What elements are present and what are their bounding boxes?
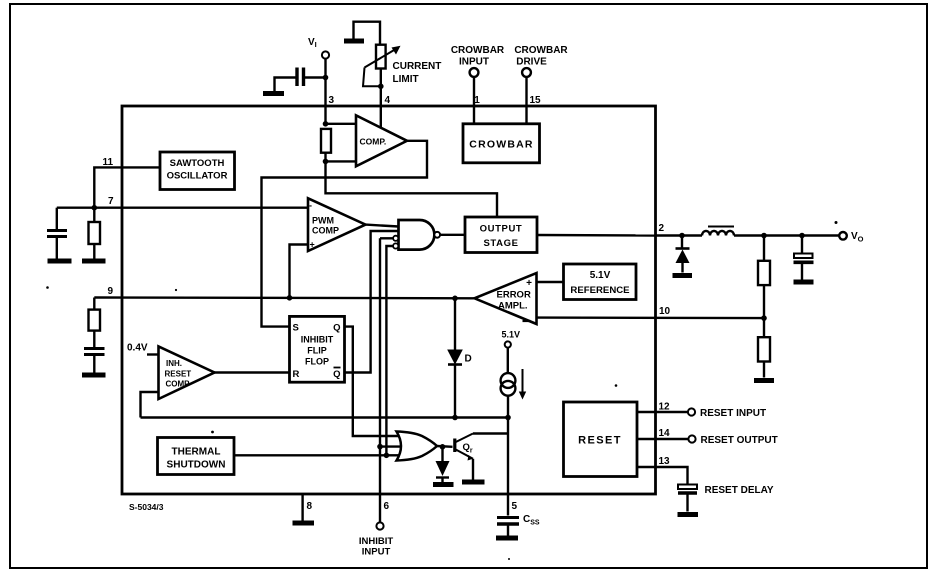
svg-text:CROWBAR: CROWBAR (451, 45, 505, 56)
current source (soft start) (501, 369, 527, 400)
svg-text:DRIVE: DRIVE (516, 57, 547, 68)
wire output stage to pin 2 (537, 234, 656, 237)
block RESET (564, 402, 638, 477)
svg-text:-: - (309, 201, 312, 211)
resistor oscillator R (89, 208, 101, 259)
svg-text:COMP.: COMP. (360, 137, 387, 147)
wire 5.1V to current source (507, 348, 509, 373)
wire pin 8 to ground (301, 494, 303, 521)
svg-text:RESET: RESET (578, 435, 622, 447)
wire flip-flop Q to OR gate (345, 327, 403, 436)
wire OR in3 (386, 454, 401, 456)
op-amp INH RESET COMP (159, 346, 215, 399)
capacitor output electrolytic (794, 236, 814, 280)
wire pin 7 (57, 206, 308, 208)
wire current source to pin 5 (507, 396, 509, 516)
node junction Vi/cap (323, 75, 329, 81)
capacitor oscillator C (47, 208, 67, 259)
ground (Qr emitter) (462, 480, 485, 485)
capacitor input bypass (297, 68, 304, 87)
op-amp ERROR AMPL (475, 273, 537, 324)
wire pin 13 (637, 467, 688, 484)
op-amp COMP (current limit comparator) (356, 115, 407, 166)
wire inhibit vertical pin 6 (379, 238, 381, 522)
capacitor RESET DELAY (678, 485, 774, 512)
svg-text:COMP: COMP (166, 380, 191, 389)
resistor sense (pin3) (321, 129, 331, 153)
op-amp PWM COMP (308, 198, 366, 251)
svg-text:+: + (526, 278, 532, 289)
wire NAND output to output stage (440, 234, 465, 236)
svg-text:5: 5 (512, 501, 518, 512)
node junction pin3 top (323, 121, 329, 127)
inductor L (702, 227, 734, 236)
wire to diode D (454, 298, 456, 350)
svg-text:3: 3 (329, 95, 335, 106)
svg-text:AMPL.: AMPL. (498, 301, 528, 312)
svg-text:D: D (465, 354, 472, 365)
svg-text:RESET: RESET (165, 370, 192, 379)
svg-text:0.4V: 0.4V (127, 343, 148, 354)
wire INH comp output to flip-flop R (215, 371, 290, 373)
wire pin 10 (feedback) (537, 316, 765, 319)
diode (OR output clamp) (436, 447, 450, 482)
wire pin 1 (473, 77, 475, 124)
wire OR in2 (380, 445, 404, 447)
svg-text:OUTPUT: OUTPUT (480, 224, 523, 235)
wire PWM plus input to pin9 line (290, 245, 309, 298)
wire NAND in4 (thermal line) (386, 246, 393, 455)
svg-text:CURRENT: CURRENT (393, 61, 442, 72)
node junction pot/wiper (378, 84, 384, 90)
capacitor Css (497, 514, 540, 536)
potentiometer CURRENT LIMIT (363, 45, 401, 87)
block OUTPUT STAGE (465, 217, 537, 253)
svg-text:7: 7 (108, 196, 114, 207)
svg-text:LIMIT: LIMIT (393, 74, 419, 85)
resistor divider lower (758, 318, 770, 377)
wire inductor to Vo (734, 234, 839, 236)
wire pin 12 (637, 411, 688, 413)
node Vo terminal (839, 231, 863, 244)
svg-text:9: 9 (108, 286, 114, 297)
ground (osc C) (48, 259, 72, 264)
ground (freewheel diode) (673, 273, 693, 278)
block 5.1V REFERENCE (564, 264, 637, 300)
wire pin 11 (94, 167, 160, 207)
svg-text:15: 15 (530, 95, 542, 106)
node 5.1V source terminal (502, 330, 521, 348)
svg-text:INPUT: INPUT (459, 57, 489, 68)
node junction pin9 line / diode D (452, 296, 458, 302)
wire diode D to soft-start line (454, 365, 456, 418)
node RESET OUTPUT terminal (688, 435, 777, 446)
svg-text:THERMAL: THERMAL (172, 447, 221, 458)
node RESET INPUT terminal (688, 408, 766, 419)
node junction divider top (761, 233, 767, 239)
svg-text:8: 8 (307, 501, 313, 512)
wire resistor bottom to output stage top (326, 153, 498, 217)
ground (reset delay) (678, 512, 699, 517)
svg-text:OSCILLATOR: OSCILLATOR (167, 171, 228, 182)
svg-text:RESET DELAY: RESET DELAY (705, 485, 774, 496)
svg-text:STAGE: STAGE (483, 238, 518, 249)
svg-text:FLOP: FLOP (305, 357, 329, 367)
wire PWM output to NAND in1 (366, 225, 399, 227)
wire NAND in3 (inhibit line) (380, 237, 393, 239)
svg-text:INH.: INH. (166, 359, 182, 368)
svg-text:6: 6 (384, 501, 390, 512)
svg-text:SHUTDOWN: SHUTDOWN (167, 460, 226, 471)
node CROWBAR DRIVE terminal (514, 45, 568, 77)
node junction output cap (799, 233, 805, 239)
gate OR (reset drive) (397, 432, 438, 461)
node junction OR output (440, 444, 446, 450)
ground (output cap) (794, 280, 814, 285)
wire comp minus input (326, 123, 357, 125)
wire Qr emitter to ground (472, 459, 474, 480)
wire OR output (437, 445, 453, 448)
svg-text:RESET OUTPUT: RESET OUTPUT (701, 435, 778, 446)
capacitor (pin9) (84, 349, 105, 373)
node junction pin7/pin11 (92, 205, 98, 211)
wire error amp plus to reference (537, 281, 564, 283)
svg-text:S-5034/3: S-5034/3 (129, 502, 164, 512)
node INHIBIT INPUT terminal (359, 522, 394, 557)
svg-text:SAWTOOTH: SAWTOOTH (170, 158, 225, 169)
wire ground to pot top (354, 22, 381, 45)
ground (input cap) (263, 91, 284, 96)
wire INH comp feedback (141, 392, 159, 418)
ground (above pot) (344, 39, 364, 44)
wire comp plus input (326, 160, 357, 162)
wire pot to pin 4 (380, 69, 382, 139)
ground (pin 8) (293, 521, 315, 526)
wire pin 15 (525, 77, 527, 124)
svg-text:13: 13 (659, 456, 671, 467)
svg-text:COMP: COMP (312, 226, 339, 236)
ground (clamp diode) (433, 482, 454, 487)
wire cap to Vi node (305, 76, 326, 78)
svg-text:1: 1 (474, 95, 480, 106)
wire soft-start horizontal line (141, 416, 509, 418)
scan specks (46, 221, 837, 560)
wire pin 2 external line (656, 234, 702, 236)
IC outline box (122, 106, 656, 494)
gate NAND (393, 220, 440, 250)
node junction soft-start line / D (452, 415, 458, 421)
ground (pin9 RC) (82, 373, 106, 378)
wire pin 14 (637, 438, 689, 440)
svg-text:ERROR: ERROR (497, 290, 531, 301)
svg-text:R: R (293, 369, 300, 380)
wire Qr collector (473, 432, 508, 434)
wire NAND in2 from flip-flop Qbar (345, 231, 399, 373)
block THERMAL SHUTDOWN (158, 438, 235, 475)
node junction inhibit / OR in2 (377, 444, 383, 450)
wire cap to ground (275, 78, 296, 93)
svg-text:5.1V: 5.1V (590, 270, 611, 281)
wire 0.4V input (147, 353, 159, 355)
svg-text:INHIBIT: INHIBIT (301, 335, 334, 345)
svg-text:REFERENCE: REFERENCE (570, 285, 630, 296)
node junction PWM+/pin9 (287, 295, 293, 301)
svg-text:14: 14 (659, 428, 671, 439)
block SAWTOOTH OSCILLATOR (160, 152, 235, 190)
svg-text:Q: Q (333, 369, 340, 380)
svg-text:4: 4 (385, 95, 391, 106)
svg-text:FLIP: FLIP (307, 346, 327, 356)
node junction soft-start (505, 415, 511, 421)
resistor divider upper (758, 236, 770, 319)
svg-text:INHIBIT: INHIBIT (359, 536, 394, 547)
svg-text:Q: Q (333, 323, 340, 334)
svg-text:10: 10 (659, 306, 671, 317)
wire COMP output to flip-flop S (262, 141, 428, 327)
svg-text:PWM: PWM (312, 216, 334, 226)
block INHIBIT FLIP FLOP (290, 316, 345, 382)
node junction divider mid (pin 10) (761, 315, 767, 321)
svg-text:+: + (310, 240, 315, 250)
wire Vi to pin 3 (324, 59, 326, 124)
svg-text:5.1V: 5.1V (502, 330, 521, 340)
diode freewheel (676, 236, 690, 273)
svg-text:2: 2 (659, 223, 665, 234)
svg-text:S: S (293, 323, 299, 334)
ground (Css) (496, 536, 518, 541)
ground (divider) (754, 378, 774, 383)
block CROWBAR (463, 124, 540, 163)
node junction pin3 bottom (323, 159, 329, 165)
svg-text:CROWBAR: CROWBAR (514, 45, 568, 56)
diode D (448, 350, 472, 365)
resistor soft network R (pin9) (89, 298, 101, 348)
svg-text:RESET INPUT: RESET INPUT (700, 408, 766, 419)
ground (osc R) (82, 259, 106, 264)
svg-text:INPUT: INPUT (362, 547, 391, 558)
node CROWBAR INPUT terminal (451, 45, 505, 77)
svg-text:CROWBAR: CROWBAR (469, 139, 533, 151)
wire pin 9 (error amp output line) (94, 296, 474, 299)
wire thermal shutdown to OR gate (234, 454, 386, 456)
transistor Qr (455, 434, 473, 461)
node Vi terminal (308, 37, 329, 59)
node junction thermal / OR in3 (384, 453, 390, 459)
node junction freewheel diode (679, 233, 685, 239)
